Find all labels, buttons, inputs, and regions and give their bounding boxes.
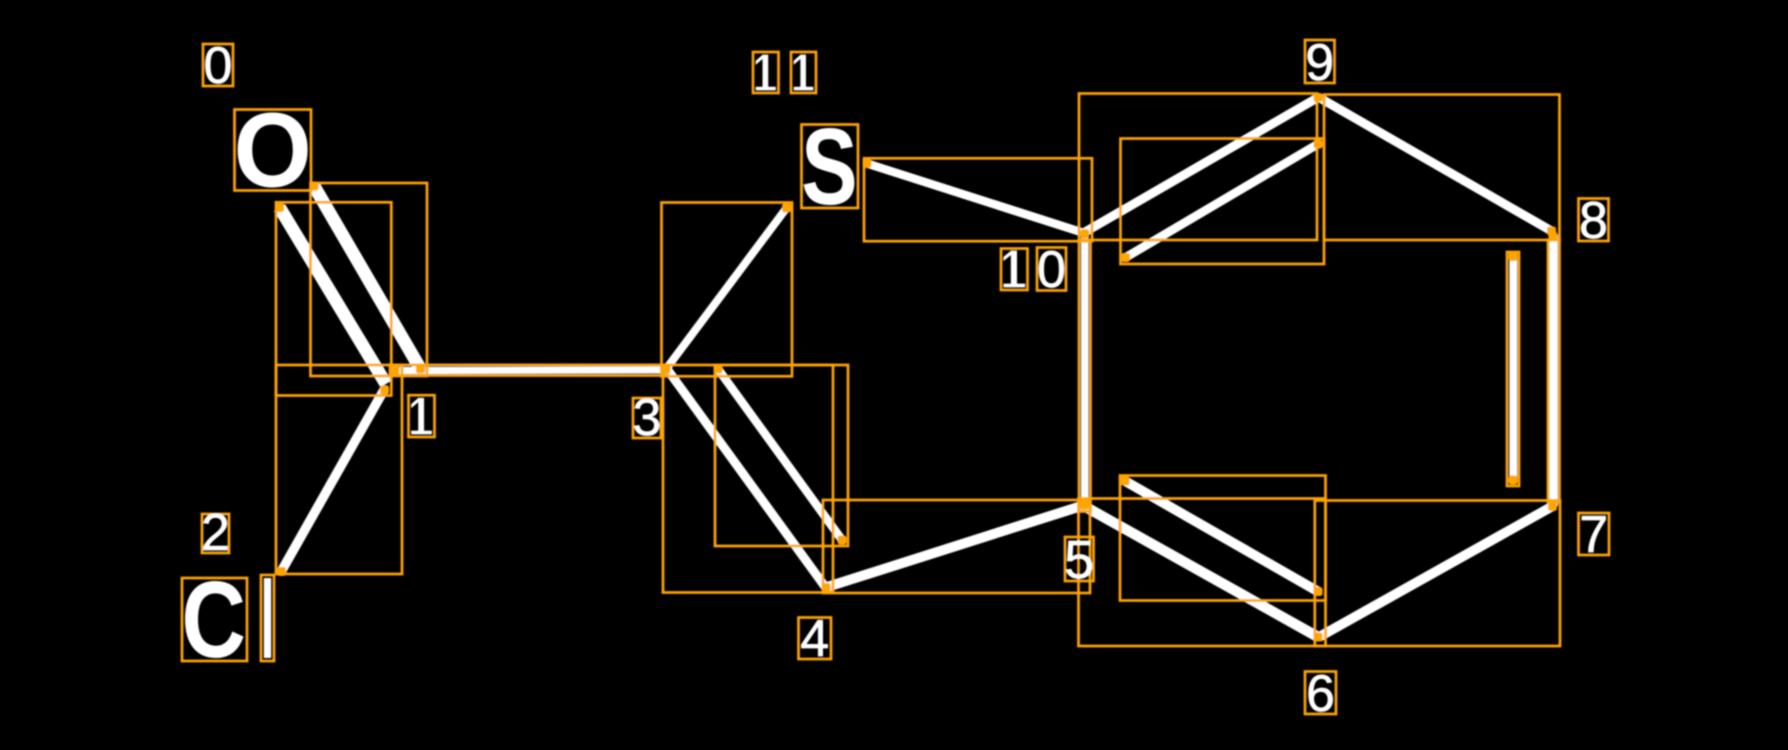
marker C3=C4 inner top (714, 365, 723, 374)
marker C10=C9 inner right (1314, 140, 1323, 149)
marker C1-C3 left (391, 366, 400, 375)
bbox bond C10-C5 (1079, 241, 1091, 512)
bbox bond S-C10 (864, 158, 1092, 241)
bond C1=O line B (inner) (280, 208, 387, 385)
bbox index 10 digit 1 (1001, 249, 1028, 291)
bbox bond C10=C9 inner (1121, 139, 1325, 265)
bbox bond C5=C6 outer (1079, 499, 1326, 647)
bond C1=O line A (outer) (314, 186, 421, 369)
bbox index 0 (203, 44, 233, 86)
bbox index 11 digit 1b (791, 52, 816, 93)
marker C9-C8 right (1547, 227, 1556, 236)
bbox bond C1-C3 (390, 365, 667, 376)
bbox atom label S (802, 125, 859, 209)
bbox bond C9-C8 (1324, 95, 1560, 241)
marker C10=C9 inner left (1121, 253, 1130, 262)
bbox index 2 (202, 514, 229, 553)
marker atom 5 (1080, 501, 1089, 510)
bbox bond C8=C7 inner (1507, 252, 1519, 486)
marker A bottom (416, 365, 425, 374)
marker C5=C6 inner left (1121, 477, 1130, 486)
bbox atom label l (261, 575, 274, 661)
marker A top (O end) (310, 182, 319, 191)
bbox index 7 (1579, 513, 1610, 555)
marker C8=C7 outer top (1549, 232, 1558, 241)
svg-text:2: 2 (201, 504, 230, 562)
svg-text:6: 6 (1306, 665, 1335, 723)
marker Cl bottom (277, 567, 286, 576)
bbox bond C8=C7 outer (1548, 240, 1560, 502)
bond C1-C3 (392, 366, 666, 374)
bond C8=C7 line inner (1509, 257, 1517, 480)
svg-text:7: 7 (1579, 506, 1608, 564)
bond C5=C6 line outer (1084, 506, 1318, 637)
marker C5=C6 inner right (1314, 587, 1323, 596)
bbox index 1 (409, 395, 435, 437)
svg-text:0: 0 (1037, 241, 1066, 299)
marker C1-C3 right / atom 3 (662, 365, 671, 374)
marker S-C10 left (863, 159, 872, 168)
bbox bond C10=C9 outer (1079, 94, 1317, 241)
bbox index 10 digit 0 (1037, 248, 1066, 291)
bond S-C10 (867, 164, 1084, 234)
bbox bond C1=O line B (276, 202, 391, 395)
bbox index 8 (1579, 199, 1609, 242)
bbox bond C1=O line A (311, 183, 428, 376)
marker atom 9 (1314, 93, 1323, 102)
bond C1-Cl (282, 389, 385, 571)
svg-text:0: 0 (204, 37, 233, 95)
bbox index 9 (1305, 40, 1335, 83)
svg-text:9: 9 (1305, 34, 1334, 92)
marker C8=C7 inner top (1509, 252, 1518, 261)
bond C10=C9 line outer (1085, 98, 1318, 233)
bond S-C3 (667, 208, 787, 369)
bond C3=C4 line outer (667, 369, 826, 588)
bbox atom label O (235, 110, 312, 191)
svg-text:8: 8 (1579, 192, 1608, 250)
marker atom 4 (822, 583, 831, 592)
bond C4-C5 (827, 506, 1083, 588)
bond C10-C5 (1081, 234, 1089, 505)
bond C5=C6 line inner (1125, 481, 1318, 592)
bond C10=C9 line inner (1126, 144, 1319, 258)
svg-text:4: 4 (800, 610, 829, 668)
bbox index 11 digit 1 (753, 52, 779, 93)
marker B bottom / Cl top (380, 385, 389, 394)
marker C3=C4 inner bottom (838, 536, 847, 545)
svg-text:5: 5 (1064, 530, 1094, 590)
bond C6-C7 (1319, 507, 1552, 638)
bond C8=C7 line outer (1549, 235, 1558, 506)
bbox bond C3=C4 outer (663, 365, 833, 593)
bbox bond S-C3 (662, 203, 793, 377)
marker atom 10 (1080, 229, 1089, 238)
bond C9-C8 (1319, 98, 1552, 232)
bbox bond C3=C4 inner (715, 365, 848, 546)
index label 1 (412, 398, 432, 434)
bbox bond C6-C7 (1315, 501, 1560, 647)
bbox index 5 (1065, 537, 1094, 581)
bbox index 4 (799, 618, 832, 660)
bond C3=C4 line inner (718, 369, 842, 540)
marker B top (275, 203, 284, 212)
index label 10 (1004, 251, 1025, 287)
bbox atom label C (182, 578, 247, 661)
svg-text:3: 3 (633, 389, 662, 447)
bbox bond C5=C6 inner (1120, 476, 1326, 601)
bbox index 3 (633, 398, 661, 438)
marker S-C3 top (782, 204, 791, 213)
bbox bond C1-Cl (276, 365, 402, 574)
marker C8=C7 inner bottom (1509, 476, 1518, 485)
atom label Cl: l glyph (atom 2) (264, 578, 271, 658)
bbox bond C4-C5 (823, 500, 1090, 593)
bbox index 6 (1305, 672, 1336, 715)
marker atom 7 (1548, 502, 1557, 511)
marker atom 6 (1314, 633, 1323, 642)
index label 11 (756, 55, 776, 90)
